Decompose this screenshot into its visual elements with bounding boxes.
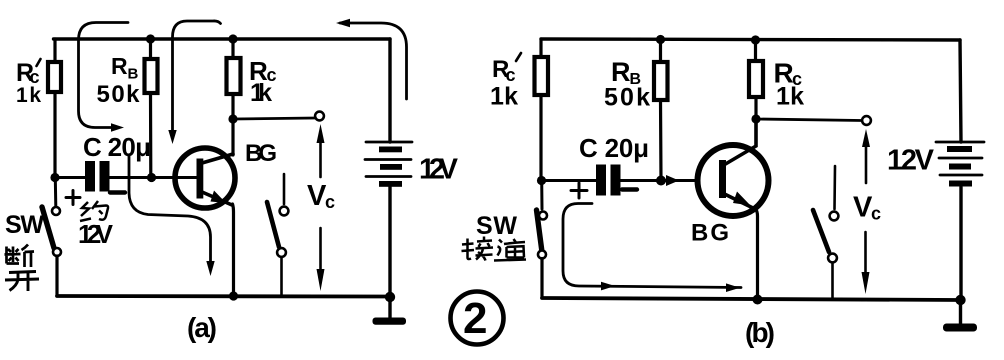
label 开 (switch open char 2) (a) — [5, 272, 39, 292]
wire: R'c bottom to capacitor node (b) — [539, 95, 542, 181]
battery 12V (a) plate short 1 — [379, 147, 402, 153]
current arrow: from battery positive (a) — [336, 19, 407, 99]
wire: battery - down to ground rail (a) — [388, 187, 391, 297]
junction: battery/ground rail (b) — [955, 295, 965, 305]
Vc upper arrow (points up to test point) (a) — [317, 124, 325, 177]
wire: supply rail to RB body (a) — [149, 39, 152, 60]
label 约 (approx) (a) — [80, 201, 108, 221]
label RB (a) — [111, 53, 139, 83]
wire: collector node down to transistor collector (a) — [231, 119, 234, 155]
wire: capacitor right lead to base node (a) — [110, 176, 176, 179]
wire: node to switch SW top (b) — [540, 181, 543, 209]
svg-text:R: R — [611, 57, 631, 87]
label RB (b) — [611, 57, 641, 88]
wire: collector node to Vc test point (b) — [756, 119, 862, 121]
label Vc (b) — [853, 192, 881, 224]
test point circle at collector (a) — [315, 112, 324, 121]
wire: supply rail down to battery + (a) — [388, 39, 391, 142]
wire: emitter down to ground rail (b) — [755, 208, 758, 299]
label - polarity (b) — [622, 187, 637, 191]
wire: emitter down to ground rail (a) — [233, 204, 234, 296]
label - polarity (a) — [110, 190, 125, 194]
current arrowhead on base wire (b) — [666, 175, 679, 186]
junction: RC top on supply rail (a) — [228, 34, 237, 43]
junction: node RB-bottom / base (a) — [147, 173, 156, 182]
battery 12V (b) plate short 3 — [949, 181, 972, 187]
label Vc (a) — [307, 180, 335, 212]
transistor BG (b) circle — [698, 145, 769, 216]
battery 12V (a) plate short 2 — [380, 164, 402, 170]
Vc upper arrow (points up to test point) (b) — [862, 129, 870, 183]
junction: node capacitor-left (a) — [50, 173, 59, 182]
svg-text:12V: 12V — [887, 145, 935, 177]
wire: RB bottom to base node (b) — [659, 100, 663, 181]
test point circle at collector (b) — [862, 116, 871, 125]
svg-text:1k: 1k — [776, 83, 804, 111]
battery 12V (a) plate long 1 — [366, 141, 412, 144]
svg-text:B: B — [128, 66, 139, 83]
switch SW (b) blade (closed) — [537, 210, 543, 252]
junction: battery/ground rail (a) — [385, 292, 395, 302]
svg-text:c: c — [325, 192, 335, 212]
label 接 (closed char 1) (b) — [462, 237, 494, 261]
switch (transistor equivalent) (a) bottom lead — [280, 258, 283, 296]
wire: supply rail down to battery + (b) — [960, 40, 961, 142]
label + polarity (a) — [66, 191, 80, 205]
wire: ground stem (a) — [388, 297, 391, 318]
label Rc (a) — [249, 56, 277, 86]
switch SW (a) top contact — [52, 207, 60, 215]
junction: RB top on supply rail (a) — [146, 34, 155, 43]
wire: circuit (a) left vertical from top rail to R'c — [53, 39, 56, 63]
ground symbol (a) — [373, 318, 407, 325]
wire: circuit (b) bottom ground rail — [542, 298, 960, 300]
wire: RC bottom to collector node (b) — [754, 97, 757, 119]
switch (transistor equivalent) (b) bottom lead — [831, 263, 834, 299]
label 断 (switch open char 1) (a) — [5, 245, 35, 268]
label Rc (b) — [774, 58, 803, 90]
transistor BG (a) emitter lead with arrow — [202, 191, 232, 206]
junction: emitter/ground rail (b) — [753, 295, 763, 305]
switch (transistor equivalent) (a) blade open — [267, 202, 279, 247]
transistor BG (a) circle — [175, 148, 235, 208]
junction: RB top on supply rail (b) — [656, 35, 665, 44]
wire: switch bottom to ground rail (b) — [540, 259, 543, 299]
junction: collector node (a) — [228, 114, 237, 123]
svg-text:R: R — [111, 53, 128, 79]
switch (transistor equivalent) (a) top contact — [280, 207, 289, 216]
wire: collector node to Vc test point (a) — [233, 118, 315, 119]
switch (transistor equivalent) (b) top contact — [830, 212, 839, 221]
transistor BG (b) emitter lead with arrow — [726, 192, 756, 210]
battery 12V (a) plate long 2 — [365, 158, 411, 161]
svg-text:C 20μ: C 20μ — [579, 133, 649, 163]
svg-text:50k: 50k — [97, 81, 141, 108]
svg-text:12V: 12V — [419, 154, 459, 186]
transistor BG (b) base bar — [719, 160, 726, 198]
capacitor C 20u (b) plate + — [596, 165, 606, 196]
wire: switch bottom to ground rail (a) — [55, 256, 58, 296]
Vc lower arrow (points down to ground rail) (a) — [317, 228, 325, 291]
wire: circuit (b) top supply rail — [541, 39, 960, 40]
battery 12V (b) plate short 2 — [949, 164, 971, 170]
wire: R'c bottom to capacitor node (a) — [53, 92, 56, 178]
current arrow: charge loop middle (a) — [168, 21, 220, 144]
current arrow: capacitor discharge to emitter (a) — [129, 155, 215, 276]
resistor R'c 1k (a) body — [48, 62, 61, 92]
wire: capacitor left lead (a) — [55, 176, 85, 179]
capacitor C 20u (a) plate + — [85, 161, 95, 192]
battery 12V (b) plate long 1 — [936, 141, 984, 144]
switch (transistor equivalent) (a) top lead — [283, 174, 286, 204]
battery 12V (b) plate long 2 — [939, 157, 982, 160]
wire: supply rail to RC body (a) — [231, 39, 234, 61]
current arrow: charge loop left (a) — [79, 23, 129, 132]
wire: circuit (a) top supply rail — [54, 37, 391, 40]
transistor BG (a) collector lead — [202, 154, 233, 163]
label R'c (a) — [16, 59, 41, 87]
svg-text:V: V — [853, 192, 873, 224]
svg-text:50k: 50k — [604, 84, 650, 112]
wire: supply rail to RC body (b) — [754, 40, 757, 61]
current arrow: emitter loop (b) — [563, 204, 741, 293]
svg-text:12V: 12V — [78, 219, 114, 249]
capacitor C 20u (a) plate - — [100, 161, 110, 192]
battery 12V (b) plate long 3 — [940, 174, 982, 177]
svg-text:BG: BG — [691, 220, 729, 247]
switch SW (b) top contact — [539, 212, 547, 220]
label 通 (closed char 2) (b) — [494, 239, 526, 261]
svg-text:(b): (b) — [745, 317, 775, 348]
svg-text:BG: BG — [245, 140, 277, 167]
wire: battery - down to ground rail (b) — [959, 187, 962, 300]
svg-text:1k: 1k — [16, 84, 41, 107]
Vc lower arrow (points down to ground rail) (b) — [862, 232, 870, 294]
junction: node capacitor-left (b) — [537, 176, 546, 185]
wire: ground stem (b) — [959, 300, 962, 324]
resistor RC 1k (a) body — [227, 58, 241, 94]
wire: supply rail to RB body (b) — [659, 40, 662, 63]
junction: RC top on supply rail (b) — [751, 35, 760, 44]
wire: node to switch SW top (a) — [54, 178, 58, 207]
junction: emitter/ground rail (a) — [229, 291, 238, 300]
ground symbol (b) — [943, 324, 977, 332]
transistor BG (a) base bar — [197, 159, 204, 199]
label + polarity (b) — [571, 183, 587, 198]
switch (transistor equivalent) (b) blade open — [813, 210, 829, 252]
figure number circled 2 — [451, 292, 504, 345]
svg-text:V: V — [307, 180, 327, 212]
resistor R'c 1k (b) body — [535, 57, 549, 95]
svg-text:2: 2 — [463, 294, 487, 343]
switch SW (b) bottom contact — [538, 251, 546, 259]
wire: circuit (b) left vertical from top rail to R'c — [539, 39, 542, 58]
junction: node RB-bottom / base (b) — [656, 176, 666, 186]
capacitor C 20u (b) plate - — [611, 165, 621, 196]
switch (transistor equivalent) (b) top lead — [833, 166, 836, 209]
svg-text:SW: SW — [476, 212, 517, 240]
wire: capacitor left lead (b) — [542, 179, 597, 182]
switch (transistor equivalent) (a) bottom contact — [277, 248, 286, 257]
junction: collector node (b) — [751, 114, 760, 123]
label R'c (b) — [492, 53, 521, 85]
wire: capacitor right lead to base node (b) — [621, 179, 699, 182]
resistor RB 50k (a) body — [145, 59, 158, 93]
svg-text:1k: 1k — [490, 83, 518, 111]
svg-text:SW: SW — [5, 211, 44, 239]
wire: base lead into transistor (a) — [175, 176, 197, 179]
svg-text:C 20μ: C 20μ — [83, 132, 151, 162]
svg-text:(a): (a) — [187, 312, 217, 343]
svg-text:c: c — [871, 204, 881, 224]
battery 12V (a) plate long 3 — [366, 175, 411, 178]
resistor RB 50k (b) body — [654, 62, 668, 100]
wire: circuit (a) bottom ground rail — [57, 294, 390, 298]
resistor RC 1k (b) body — [749, 61, 763, 97]
wire: RC bottom to collector node (a) — [231, 95, 234, 119]
switch SW (a) blade (open) — [42, 207, 54, 248]
battery 12V (a) plate short 3 — [379, 181, 402, 187]
wire: RB bottom to base node (a) — [149, 93, 153, 178]
switch (transistor equivalent) (b) bottom contact — [828, 254, 837, 263]
battery 12V (b) plate short 1 — [947, 146, 972, 152]
transistor BG (b) collector lead — [726, 119, 757, 164]
switch SW (a) bottom contact — [53, 248, 61, 256]
svg-text:1k: 1k — [250, 79, 272, 107]
